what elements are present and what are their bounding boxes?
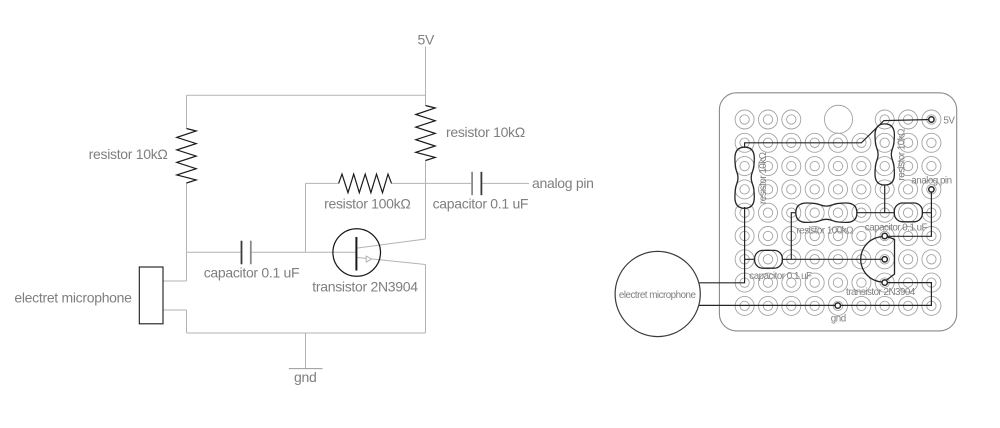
pin Q1 emitter dot — [882, 280, 887, 285]
wire analog pin net — [885, 189, 932, 236]
svg-text:capacitor 0.1 uF: capacitor 0.1 uF — [865, 223, 928, 234]
wire output cap C2 leads — [426, 182, 530, 184]
wire collector node row5 — [857, 186, 895, 213]
pin gnd pad dot — [835, 303, 840, 308]
wire emitter diagonal — [358, 258, 426, 265]
svg-text:capacitor 0.1 uF: capacitor 0.1 uF — [433, 196, 529, 212]
wire 5V trace — [745, 120, 932, 148]
board capacitor C2 body — [894, 203, 922, 222]
svg-text:transistor 2N3904: transistor 2N3904 — [846, 287, 916, 298]
svg-text:analog pin: analog pin — [911, 176, 951, 187]
wire base node C1 to Q1 — [782, 213, 884, 260]
svg-text:resistor 10kΩ: resistor 10kΩ — [89, 146, 168, 162]
svg-text:resistor 100kΩ: resistor 100kΩ — [324, 195, 410, 211]
board capacitor C1 body — [755, 250, 783, 268]
board resistor R2 10k dogbone — [875, 124, 894, 185]
capacitor C2 0.1uF plates — [471, 172, 473, 195]
perfboard outline — [719, 93, 956, 331]
electret microphone circle — [615, 251, 700, 336]
perfboard pads — [735, 110, 941, 315]
svg-text:analog pin: analog pin — [532, 175, 594, 191]
pin Q1 base dot — [882, 257, 887, 262]
wire coupling cap C1 leads / base node — [187, 251, 357, 253]
resistor R3 100k feedback — [339, 174, 392, 193]
svg-text:resistor 10kΩ: resistor 10kΩ — [446, 124, 525, 140]
board resistor R3 100k dogbone — [796, 203, 857, 222]
resistor R1 10k left — [177, 129, 196, 184]
svg-text:capacitor 0.1 uF: capacitor 0.1 uF — [204, 265, 300, 281]
svg-text:5V: 5V — [943, 115, 955, 126]
svg-text:resistor 10kΩ: resistor 10kΩ — [897, 129, 908, 181]
capacitor C1 0.1uF plates — [241, 241, 243, 265]
pin Q1 collector dot — [882, 233, 887, 238]
svg-text:electret microphone: electret microphone — [14, 290, 132, 306]
svg-text:resistor 10kΩ: resistor 10kΩ — [758, 152, 769, 204]
wire mic negative stub — [163, 310, 187, 333]
wire collector node vertical — [425, 161, 427, 240]
svg-text:capacitor 0.1 uF: capacitor 0.1 uF — [749, 271, 812, 282]
wire feedback node drop — [305, 183, 307, 252]
wire gnd stub — [305, 333, 307, 369]
svg-text:gnd: gnd — [294, 369, 316, 385]
svg-text:5V: 5V — [418, 32, 435, 48]
wire left rail lower to mic — [163, 183, 187, 281]
wire left rail upper — [186, 95, 188, 128]
ground symbol — [289, 368, 323, 370]
wire 5V supply drop — [425, 47, 427, 106]
emitter arrow — [366, 256, 371, 262]
wire mic plus to R1 bottom and C1 — [699, 207, 755, 283]
wire gnd net — [699, 283, 932, 306]
wire ground rail — [187, 332, 426, 334]
svg-text:electret microphone: electret microphone — [619, 290, 697, 301]
svg-text:transistor 2N3904: transistor 2N3904 — [312, 278, 418, 294]
wire collector diagonal — [358, 239, 426, 248]
resistor R2 10k right — [416, 106, 435, 161]
wire emitter drop — [425, 265, 427, 334]
wire R3 100k leads — [306, 182, 426, 184]
transistor Q1 base bar — [355, 237, 357, 271]
transistor Q1 body circle — [333, 229, 381, 277]
board transistor Q1 body — [861, 237, 895, 282]
pin analog pad dot — [929, 187, 934, 192]
electret microphone body — [139, 267, 163, 324]
mounting hole — [824, 105, 852, 133]
svg-text:resistor 100kΩ: resistor 100kΩ — [797, 226, 854, 237]
wire top rail — [187, 94, 426, 96]
board resistor R1 10k dogbone — [735, 147, 754, 208]
pin 5V pad dot — [929, 117, 934, 122]
svg-text:gnd: gnd — [831, 314, 846, 325]
